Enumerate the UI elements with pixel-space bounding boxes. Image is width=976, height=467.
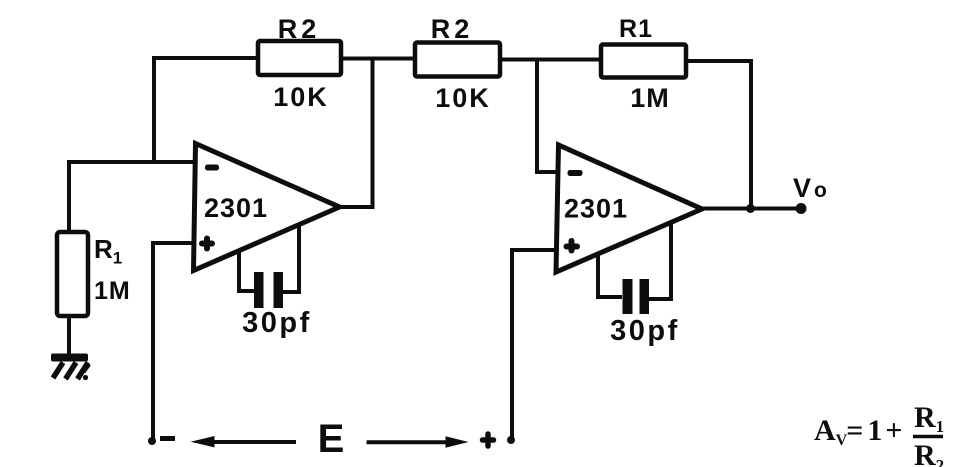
svg-text:R2: R2 (914, 439, 944, 467)
source E minus sign (160, 436, 175, 441)
svg-text:10K: 10K (273, 82, 329, 112)
svg-text:Vo: Vo (793, 173, 827, 203)
svg-text:1M: 1M (630, 83, 670, 113)
source E plus sign (483, 434, 494, 446)
resistor R1 1M (input, vertical) (57, 232, 88, 316)
terminal Vo (796, 203, 807, 214)
capacitor C1 30pf (239, 225, 299, 308)
wire (500, 58, 601, 62)
svg-text:E: E (318, 417, 345, 461)
svg-text:30pf: 30pf (242, 307, 312, 339)
svg-text:2301: 2301 (564, 194, 628, 224)
op-amp U2 2301 (556, 145, 702, 272)
ground (51, 354, 89, 381)
U2 plus sign (567, 241, 578, 251)
wire (537, 59, 558, 172)
op-amp U1 2301 (194, 144, 340, 271)
wire (341, 57, 415, 61)
U1 plus sign (202, 239, 212, 249)
svg-text:30pf: 30pf (610, 315, 680, 347)
svg-text:R2: R2 (278, 14, 321, 44)
formula Av = 1 + R1/R2 (814, 401, 944, 467)
wire (154, 58, 258, 163)
arrow right (367, 436, 469, 447)
wire (67, 160, 196, 164)
svg-text:R1: R1 (914, 401, 944, 436)
svg-text:R2: R2 (431, 14, 474, 44)
wire (67, 316, 71, 355)
node (U1 + input to E minus) (148, 437, 156, 445)
resistor R2 10K (first) (258, 41, 341, 75)
node (U2 + input to E plus) (507, 436, 515, 444)
arrow left (191, 436, 297, 447)
wire (701, 207, 800, 211)
svg-text:2301: 2301 (204, 193, 268, 223)
wire (686, 61, 751, 209)
U2 minus sign (568, 170, 583, 176)
resistor R1 1M (feedback) (601, 45, 686, 78)
svg-text:R1: R1 (619, 15, 653, 43)
svg-text:1M: 1M (94, 277, 131, 305)
wire (512, 250, 558, 437)
svg-text:10K: 10K (435, 83, 491, 113)
resistor R2 10K (second) (415, 43, 500, 77)
U1 minus sign (205, 165, 219, 171)
node (output junction) (746, 204, 755, 213)
wire (67, 162, 71, 233)
wire (153, 243, 196, 439)
svg-text:AV=1+: AV=1+ (814, 414, 902, 449)
svg-text:R1: R1 (94, 234, 122, 268)
capacitor C2 30pf (598, 222, 671, 314)
wire (338, 58, 373, 207)
